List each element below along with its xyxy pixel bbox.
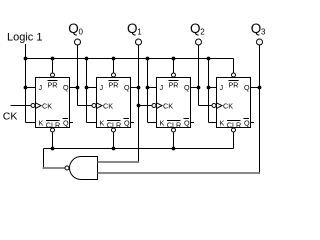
wire: CK input to U1 clock bubble: [11, 105, 31, 107]
svg-text:1: 1: [137, 28, 142, 37]
preset bubble of U3: [172, 73, 176, 77]
wire: Q output stub of U3: [191, 87, 199, 89]
wire: junction dot at Q1 line: [137, 86, 141, 90]
pin label CK of U3: [163, 102, 173, 111]
wire: K input stub of U4: [209, 122, 217, 124]
wire: NAND output vertical from CLR rail: [43, 149, 45, 169]
wire: J input stub of U3: [148, 87, 157, 89]
pin label CK of U4: [223, 102, 233, 111]
wire: Q1 line down to NAND input A: [138, 45, 140, 163]
svg-text:Q: Q: [124, 118, 130, 127]
svg-text:Q: Q: [244, 118, 250, 127]
wire: CLR rail: [44, 148, 234, 150]
pin label Qbar of U2: [124, 118, 131, 127]
svg-text:J: J: [100, 83, 104, 92]
wire: NAND input B from Q3: [98, 172, 261, 174]
svg-text:Q: Q: [68, 21, 79, 36]
wire: junction dot on logic-1 drop at J of U2: [85, 86, 89, 90]
clock bubble of U3: [152, 104, 156, 108]
wire: K input stub of U3: [148, 122, 157, 124]
svg-text:2: 2: [200, 28, 205, 37]
nand gate G1 output bubble: [65, 166, 69, 170]
pin label CK of U1: [42, 102, 52, 111]
wire: Q0 line down to U2 clock: [77, 45, 79, 106]
pin label K of U2: [100, 118, 105, 127]
wire: junction dot on Q1 line at U3 clock branch: [137, 104, 141, 108]
wire: J input stub of U1: [26, 87, 36, 89]
wire: K input stub of U2: [87, 122, 97, 124]
pin label Q of U4: [244, 83, 250, 92]
wire: junction dot on logic-1 drop at J of U4: [207, 86, 211, 90]
preset bubble of U2: [112, 73, 116, 77]
wire: clock branch into U4: [199, 105, 212, 107]
wire: junction dot at Q2 line: [197, 86, 201, 90]
svg-text:CK: CK: [163, 102, 173, 111]
svg-text:Q: Q: [184, 118, 190, 127]
wire: K input stub of U1: [26, 122, 36, 124]
wire: junction dot at Q3 line: [258, 86, 262, 90]
pin label PR of U2: [109, 81, 119, 90]
wire: rail junction dot at U3 drop: [146, 57, 150, 61]
pin label Qbar of U1: [63, 118, 70, 127]
svg-text:K: K: [220, 118, 225, 127]
svg-text:Q: Q: [63, 118, 69, 127]
preset bubble of U1: [51, 73, 55, 77]
pin label CLR of U1: [46, 120, 60, 129]
svg-text:Q: Q: [127, 21, 138, 36]
pin label K of U3: [160, 118, 165, 127]
clear bubble of U3: [172, 128, 176, 132]
net label Logic 1: [7, 32, 42, 44]
clear bubble of U4: [232, 128, 236, 132]
pin label CLR of U2: [107, 120, 121, 129]
pin label K of U1: [39, 118, 44, 127]
wire: rail junction dot at U2 PR drop: [112, 57, 116, 61]
wire: junction dot on logic-1 drop at J of U3: [146, 86, 150, 90]
wire: PR drop for U1: [52, 59, 54, 73]
pin label PR of U4: [229, 81, 239, 90]
wire: unconnected Qbar stub of U4: [251, 122, 255, 124]
preset bubble of U4: [232, 73, 236, 77]
pin label J of U1: [39, 83, 43, 92]
wire: logic-1 drop for U2: [86, 59, 88, 123]
node Q0 output label: [68, 21, 83, 37]
wire: CLR drop of U2: [113, 133, 115, 149]
wire: NAND output horizontal into bubble: [43, 167, 65, 169]
svg-text:0: 0: [79, 28, 84, 37]
wire: CLR drop of U1: [52, 133, 54, 149]
svg-text:Q: Q: [190, 21, 201, 36]
clock bubble of U2: [92, 104, 96, 108]
wire: logic-1 drop for U4: [208, 59, 210, 123]
wire: PR drop for U3: [173, 59, 175, 73]
svg-text:K: K: [100, 118, 105, 127]
flip-flop U1 body: [36, 78, 70, 128]
svg-text:Q: Q: [244, 83, 250, 92]
flip-flop U4 body: [217, 78, 251, 128]
wire: rail junction dot at U1 PR drop: [51, 57, 55, 61]
input label CK: [3, 111, 18, 123]
pin label K of U4: [220, 118, 225, 127]
clock bubble of U4: [212, 104, 216, 108]
wire: clock branch into U3: [139, 105, 152, 107]
wire: junction dot on logic-1 drop at J of U1: [24, 86, 28, 90]
wire: Q output stub of U1: [70, 87, 78, 89]
svg-text:Logic 1: Logic 1: [7, 32, 42, 44]
flip-flop U2 body: [97, 78, 131, 128]
terminal Q2: [196, 39, 202, 45]
wire: clock branch into U2: [78, 105, 92, 107]
svg-text:J: J: [160, 83, 164, 92]
flip-flop U3 body: [157, 78, 191, 128]
svg-text:J: J: [39, 83, 43, 92]
wire: junction dot at Q0 line: [76, 86, 80, 90]
wire: unconnected Qbar stub of U2: [131, 122, 135, 124]
clock wedge of U3: [157, 103, 163, 109]
pin label Q of U2: [124, 83, 130, 92]
pin label J of U4: [220, 83, 224, 92]
wire: Q3 line down to NAND input B: [259, 45, 261, 174]
terminal Q3: [257, 39, 263, 45]
clock wedge of U1: [36, 103, 42, 109]
wire: unconnected Qbar stub of U1: [70, 122, 74, 124]
svg-text:Q: Q: [251, 21, 262, 36]
wire: logic-1 drop for U3: [147, 59, 149, 123]
pin label PR of U1: [48, 81, 58, 90]
wire: J input stub of U4: [209, 87, 217, 89]
svg-text:CK: CK: [103, 102, 113, 111]
wire: CLR drop of U4: [233, 133, 235, 149]
pin label Q of U1: [63, 83, 69, 92]
svg-text:K: K: [160, 118, 165, 127]
svg-text:J: J: [220, 83, 224, 92]
wire: NAND input A from Q1: [98, 161, 140, 163]
wire: J input stub of U2: [87, 87, 97, 89]
terminal Q0: [75, 39, 81, 45]
node Q3 output label: [251, 21, 266, 37]
clock bubble of U1: [31, 104, 35, 108]
svg-text:PR: PR: [169, 81, 179, 90]
wire: Q2 line down to U4 clock: [198, 45, 200, 106]
wire: Q output stub of U2: [131, 87, 139, 89]
pin label Q of U3: [184, 83, 190, 92]
svg-text:PR: PR: [109, 81, 119, 90]
svg-text:CK: CK: [42, 102, 52, 111]
pin label PR of U3: [169, 81, 179, 90]
wire: rail end drop to PR of U4: [233, 59, 235, 73]
wire: junction dot on CLR rail at U1: [51, 147, 55, 151]
clear bubble of U2: [112, 128, 116, 132]
clear bubble of U1: [51, 128, 55, 132]
svg-text:PR: PR: [229, 81, 239, 90]
wire: Logic 1 lead down to rail and K of U1: [25, 44, 27, 123]
wire: rail junction dot at U3 PR drop: [172, 57, 176, 61]
wire: rail junction dot at U2 drop: [85, 57, 89, 61]
pin label Qbar of U3: [184, 118, 191, 127]
pin label CLR of U3: [167, 120, 181, 129]
clock wedge of U4: [217, 103, 223, 109]
wire: rail junction dot at Logic 1 lead: [24, 57, 28, 61]
node Q1 output label: [127, 21, 142, 37]
wire: CLR drop of U3: [173, 133, 175, 149]
pin label Qbar of U4: [244, 118, 251, 127]
svg-text:3: 3: [261, 28, 266, 37]
pin label J of U3: [160, 83, 164, 92]
wire: junction dot on CLR rail at U2: [112, 147, 116, 151]
svg-text:CK: CK: [223, 102, 233, 111]
svg-text:CK: CK: [3, 111, 18, 123]
svg-text:Q: Q: [63, 83, 69, 92]
clock wedge of U2: [97, 103, 103, 109]
wire: PR drop for U2: [113, 59, 115, 73]
svg-text:Q: Q: [124, 83, 130, 92]
pin label J of U2: [100, 83, 104, 92]
node Q2 output label: [190, 21, 205, 37]
svg-text:Q: Q: [184, 83, 190, 92]
svg-text:PR: PR: [48, 81, 58, 90]
terminal Q1: [136, 39, 142, 45]
wire: Logic 1 top rail: [26, 58, 234, 60]
pin label CLR of U4: [227, 120, 241, 129]
pin label CK of U2: [103, 102, 113, 111]
wire: Q output stub of U4: [251, 87, 260, 89]
wire: junction dot on CLR rail at U3: [172, 147, 176, 151]
nand gate G1 body: [70, 157, 98, 180]
wire: rail junction dot at U4 drop: [207, 57, 211, 61]
svg-text:K: K: [39, 118, 44, 127]
wire: unconnected Qbar stub of U3: [191, 122, 195, 124]
